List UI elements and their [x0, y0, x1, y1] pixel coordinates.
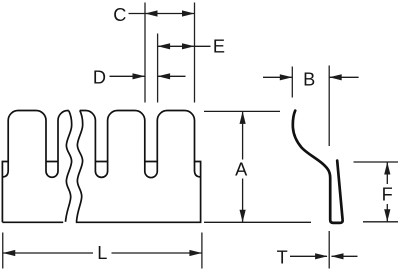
extension line B right: [328, 66, 330, 147]
right end slot curve: [195, 162, 201, 177]
extension line C/D left: [144, 3, 146, 103]
svg-text:F: F: [382, 185, 393, 205]
extension line L left: [2, 233, 4, 269]
dimension B: [263, 74, 359, 80]
svg-text:C: C: [113, 5, 126, 25]
break line 1: [66, 111, 72, 222]
svg-text:T: T: [277, 248, 288, 268]
extension line T: [328, 231, 330, 269]
extension line D/E middle: [157, 34, 159, 103]
extension line B left: [291, 67, 293, 98]
dimension L: [3, 250, 202, 256]
left end slot curve: [2, 162, 8, 177]
dimension C: [129, 10, 195, 16]
dimension D: [110, 73, 186, 79]
svg-text:A: A: [235, 160, 248, 180]
dimension T: [290, 253, 358, 259]
comb front view outline: [2, 110, 200, 222]
dimension E: [158, 43, 211, 49]
svg-text:E: E: [213, 37, 225, 57]
svg-text:L: L: [97, 243, 107, 263]
side profile hook: [293, 111, 343, 223]
dimension F: [354, 162, 399, 222]
slot surface lines: [46, 161, 157, 163]
extension line L right: [201, 233, 203, 269]
extension line C/E right: [194, 3, 196, 103]
svg-text:D: D: [93, 68, 106, 88]
break line 2: [77, 110, 83, 221]
svg-text:B: B: [303, 70, 315, 90]
dimension A: [204, 111, 311, 222]
